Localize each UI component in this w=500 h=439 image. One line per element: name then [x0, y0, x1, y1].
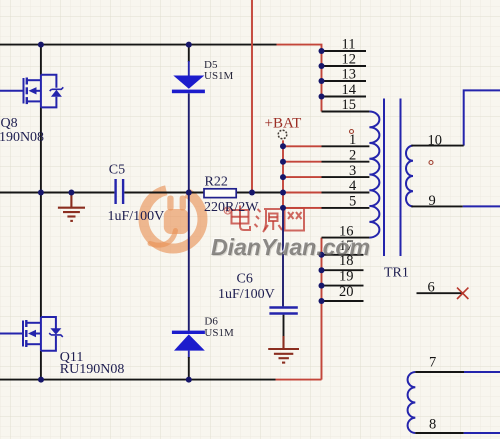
- svg-text:US1M: US1M: [204, 70, 234, 82]
- svg-text:6: 6: [428, 280, 435, 296]
- svg-text:2: 2: [349, 147, 356, 163]
- svg-text:RU190N08: RU190N08: [0, 130, 44, 145]
- watermark text DianYuan.com: [211, 234, 370, 261]
- wire top bus red feed to pins 11-14: [277, 45, 322, 112]
- svg-text:220R/2W: 220R/2W: [204, 200, 259, 215]
- wire pin 10 up and out right: [464, 90, 500, 145]
- wire red bus pins 16-20 down to bottom: [321, 238, 323, 380]
- svg-text:9: 9: [429, 193, 436, 209]
- watermark plug cord: [150, 231, 176, 246]
- wire bus down to C6: [282, 208, 284, 307]
- svg-text:3: 3: [349, 163, 356, 179]
- wire D6 cathode up to mid bus: [188, 193, 190, 331]
- transformer winding pins 7-8: [408, 372, 416, 433]
- wire red tap pin 1: [283, 145, 322, 147]
- wire C6 to ground: [283, 315, 285, 336]
- polarity dot winding 1: [350, 130, 354, 134]
- svg-text:13: 13: [342, 67, 357, 83]
- svg-text:14: 14: [342, 82, 357, 98]
- pin 7 no-erc cross: [457, 288, 468, 299]
- pin 15: [322, 97, 370, 113]
- svg-text:RU190N08: RU190N08: [60, 362, 125, 377]
- svg-text:US1M: US1M: [204, 327, 234, 339]
- pin 3: [322, 163, 370, 179]
- svg-text:TR1: TR1: [384, 266, 409, 281]
- pin 7: [415, 355, 464, 373]
- wire pin 9 out right: [463, 205, 500, 207]
- watermark chinese char dian: [232, 206, 251, 231]
- wire bottom bus red segment: [276, 379, 322, 381]
- wire Q11 drain down to bottom bus: [40, 351, 42, 380]
- wire Q11 source up to mid bus: [40, 193, 42, 318]
- svg-text:1uF/100V: 1uF/100V: [108, 209, 165, 224]
- wire +BAT red bus: [282, 140, 284, 208]
- svg-text:+BAT: +BAT: [265, 116, 302, 132]
- capacitor C6: [269, 308, 297, 314]
- ground near C6: [268, 336, 299, 363]
- watermark plug prongs: [167, 196, 173, 211]
- polarity dot winding 2: [429, 161, 433, 165]
- wire mid bus segment C5 to R22: [124, 192, 204, 194]
- pin 13: [322, 67, 367, 83]
- pin 4: [322, 178, 370, 194]
- wire D5 cathode down to mid bus: [188, 93, 190, 192]
- pin 20: [322, 284, 364, 301]
- pin 14: [322, 82, 367, 98]
- svg-text:19: 19: [339, 269, 354, 285]
- pin 6: [417, 280, 463, 296]
- svg-text:8: 8: [429, 417, 436, 433]
- wire red from top edge down to mid bus: [251, 0, 253, 193]
- pin 19: [322, 269, 364, 286]
- capacitor C5: [116, 179, 124, 204]
- pin 1: [322, 132, 370, 148]
- pin 17: [322, 238, 364, 255]
- watermark logo ring: [144, 190, 203, 249]
- transistor Q11: [0, 317, 63, 351]
- pin 12: [322, 52, 367, 68]
- pin 8: [415, 417, 463, 434]
- svg-text:1uF/100V: 1uF/100V: [218, 287, 275, 302]
- wire Q8 drain up to top bus: [40, 45, 42, 75]
- svg-text:11: 11: [342, 37, 356, 53]
- svg-text:1: 1: [349, 132, 356, 148]
- svg-text:12: 12: [342, 52, 357, 68]
- wire Q8 source down to mid bus: [40, 107, 42, 192]
- pin 9: [411, 193, 462, 209]
- pin 16: [322, 224, 370, 240]
- ground near C5: [58, 193, 85, 221]
- pin 2: [322, 147, 370, 163]
- watermark chinese char yuan: [255, 209, 283, 232]
- wire pin 7 out right: [464, 371, 500, 373]
- wire red tap pin 2: [283, 161, 322, 163]
- wire red tap pin 3: [283, 176, 322, 178]
- wire mid bus segment left: [0, 192, 114, 194]
- wire mid bus segment R22 to +BAT bus: [236, 192, 283, 194]
- wire bottom bus: [0, 379, 276, 381]
- transformer TR1 winding pins 10-9: [406, 146, 413, 207]
- watermark plug body: [164, 209, 189, 234]
- wire main top bus: [0, 44, 277, 46]
- svg-text:4: 4: [349, 178, 357, 194]
- diode D6: [172, 331, 205, 351]
- svg-text:C6: C6: [237, 272, 253, 287]
- watermark chinese char wang: [285, 208, 305, 231]
- wire red tap pin 5: [283, 207, 322, 209]
- svg-text:D6: D6: [204, 316, 218, 328]
- wire red tap pin 4: [283, 192, 322, 194]
- svg-text:R22: R22: [205, 175, 228, 190]
- wire D6 anode down to bottom bus: [188, 351, 190, 358]
- svg-text:Q8: Q8: [1, 116, 18, 131]
- power port +BAT: [265, 116, 302, 139]
- transistor Q8: [0, 75, 63, 108]
- svg-text:7: 7: [429, 355, 436, 371]
- transformer TR1 core: [384, 99, 401, 257]
- wire pin 8 out right: [464, 432, 500, 434]
- svg-text:5: 5: [349, 194, 356, 210]
- wire D5 anode lead: [188, 45, 190, 62]
- pin 18: [322, 253, 364, 270]
- svg-text:15: 15: [342, 97, 357, 113]
- pin 10: [411, 132, 463, 148]
- pin 5: [322, 194, 370, 210]
- pin 11: [322, 37, 367, 53]
- watermark registered mark: [224, 207, 231, 214]
- resistor R22: [204, 189, 236, 198]
- diode D5: [172, 76, 205, 94]
- svg-text:20: 20: [339, 284, 354, 300]
- svg-text:10: 10: [428, 132, 443, 148]
- transformer TR1 primary winding pins 15-16: [369, 112, 379, 238]
- svg-text:C5: C5: [109, 163, 125, 178]
